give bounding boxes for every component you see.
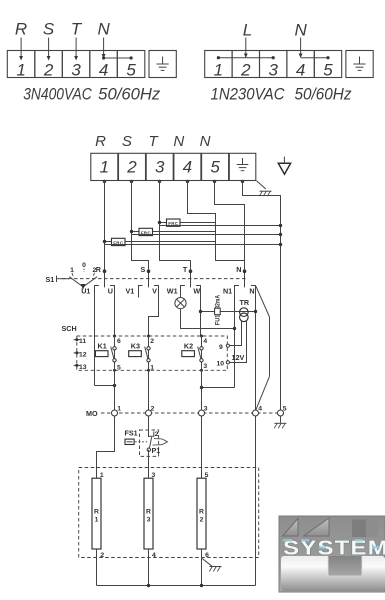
filter FRC (T phase) (167, 219, 181, 226)
wire earth pigtail at terminal 6 (202, 559, 212, 567)
transformer TR (240, 308, 249, 322)
dashed link sensor to contact (135, 441, 147, 443)
svg-text:S1: S1 (46, 275, 55, 284)
terminal 2 (232, 51, 259, 80)
svg-text:S: S (141, 265, 146, 274)
SCH edge terminals (113, 335, 203, 372)
manual actuator flag (153, 439, 168, 446)
relay contact K1 (95, 342, 116, 362)
contact U1 brackets (95, 286, 117, 388)
resistor R3 (144, 478, 153, 549)
logo square (352, 520, 378, 538)
terminal 2 (119, 153, 146, 180)
svg-text:3: 3 (147, 517, 151, 524)
mechanical linkage dashed line (62, 278, 247, 280)
svg-text:V1: V1 (126, 286, 135, 295)
svg-text:P1: P1 (152, 446, 161, 455)
node MO5 (278, 405, 287, 416)
switch position label 0 (82, 262, 86, 272)
wire N terminal5 riser (215, 180, 245, 287)
svg-text:10: 10 (216, 361, 224, 368)
wire bottom return bus (97, 584, 256, 587)
SCH board dashed box (77, 336, 228, 370)
node MO1 (112, 405, 122, 416)
ground terminal (229, 153, 256, 180)
svg-text:R: R (146, 509, 151, 516)
svg-text:V: V (152, 286, 157, 295)
SECTION: top-right supply terminal block 1N230VAC (205, 21, 373, 104)
svg-text:12V: 12V (232, 353, 245, 362)
svg-text:2: 2 (100, 552, 104, 559)
wire PE riser (243, 180, 281, 410)
wire bus terminals 1-3 (217, 56, 275, 59)
lamp W1 (175, 298, 186, 309)
svg-text:1: 1 (16, 60, 25, 79)
contact P1 fixed corner and terminal 2 (149, 431, 159, 438)
wire TR secondary to terminal 9 (230, 321, 242, 346)
logo triangle 1 (283, 519, 299, 537)
svg-text:6: 6 (117, 338, 121, 345)
terminal 9 (219, 344, 229, 351)
svg-text:U: U (108, 286, 113, 295)
svg-text:2: 2 (126, 158, 137, 177)
wire TR secondary to terminal 10 (230, 321, 247, 363)
svg-text:FS1: FS1 (125, 429, 138, 438)
resistor R1 (92, 478, 101, 549)
wire arrow R to terminal 1 (19, 38, 23, 61)
wire MO3 to heater R2 (201, 416, 203, 478)
svg-text:11: 11 (79, 338, 86, 345)
terminal 13 (74, 364, 87, 371)
terminal 12 (74, 351, 87, 358)
contact W1 brackets (181, 286, 201, 337)
svg-text:5: 5 (283, 405, 287, 412)
wire T riser (160, 180, 191, 287)
wire arrow T to terminal 3 (74, 38, 78, 61)
switch position label 1 (70, 267, 74, 276)
svg-text:K1: K1 (98, 342, 107, 351)
wire arrow N to terminal 4 (102, 38, 106, 59)
svg-text:R: R (96, 265, 102, 274)
wire contact to heater R3 (148, 450, 150, 479)
svg-text:5: 5 (126, 60, 136, 79)
svg-text:FU1: FU1 (214, 315, 221, 326)
wire R3 bottom to bus (148, 549, 150, 586)
svg-text:N: N (97, 20, 110, 39)
logo bottom band (281, 556, 385, 591)
svg-text:K2: K2 (184, 342, 193, 351)
MO dashed bus (101, 412, 284, 414)
earth stub below node 5 (280, 416, 282, 423)
SECTION: top-left supply terminal block 3N400VAC (7, 20, 176, 104)
terminal 3 (62, 51, 90, 80)
heater unit dashed box (79, 468, 259, 558)
svg-text:N: N (236, 265, 241, 274)
wire filter tap T upper (158, 221, 216, 224)
node T (183, 265, 192, 274)
wire N diagonal branch (256, 286, 270, 410)
wire link terminal 4 to terminal 5 (102, 56, 133, 59)
svg-text:1: 1 (150, 364, 154, 371)
terminal 5 (202, 153, 229, 180)
contact V1 brackets (139, 286, 159, 337)
svg-text:5: 5 (323, 60, 333, 79)
wire lamp return (181, 309, 237, 330)
svg-text:L: L (243, 21, 252, 40)
svg-text:R: R (199, 509, 204, 516)
terminal 3 (146, 153, 173, 180)
wire R1 bottom to bus (96, 549, 98, 586)
svg-text:S: S (122, 133, 132, 150)
terminal 4 (90, 51, 118, 80)
svg-text:2: 2 (155, 431, 159, 438)
svg-text:50/60Hz: 50/60Hz (98, 86, 161, 104)
svg-text:2: 2 (151, 405, 155, 412)
svg-text:N: N (173, 133, 184, 150)
svg-text:1: 1 (95, 517, 99, 524)
svg-text:3: 3 (203, 363, 207, 370)
svg-text:3: 3 (268, 60, 278, 79)
terminal 4 (287, 51, 314, 80)
wire filter S lower to PE (132, 233, 283, 236)
svg-text:3: 3 (204, 405, 208, 412)
terminal 4 (174, 153, 201, 180)
switch S1 shaft (57, 276, 70, 283)
svg-text:4: 4 (258, 405, 262, 412)
logo tab highlight edge (327, 556, 329, 576)
svg-text:4: 4 (296, 60, 305, 79)
svg-text:5: 5 (210, 158, 220, 177)
contact N1 brackets (200, 286, 256, 411)
svg-text:2: 2 (150, 338, 154, 345)
wire K2 riser (201, 336, 203, 410)
wire R riser (104, 180, 106, 287)
svg-text:1: 1 (214, 60, 223, 79)
svg-text:9: 9 (219, 344, 223, 351)
node MO3 (199, 405, 208, 416)
wire ground pigtail (257, 181, 266, 189)
SECTION: main terminal block (91, 133, 291, 410)
logo base plate (279, 516, 385, 592)
svg-text:1: 1 (100, 158, 109, 177)
wire filter T lower to PE (160, 224, 283, 227)
svg-text:3: 3 (155, 158, 165, 177)
svg-text:T: T (71, 20, 83, 39)
wire N terminal4 riser (188, 180, 245, 260)
switch S1 selector V (69, 277, 97, 290)
svg-text:0: 0 (82, 262, 86, 269)
wire bus terminals 4-5 (301, 56, 330, 59)
terminal 1 (205, 51, 232, 80)
svg-text:4: 4 (152, 552, 156, 559)
chassis earth symbol at block (259, 191, 271, 196)
svg-text:1N230VAC: 1N230VAC (211, 86, 285, 104)
logo center tab (328, 556, 362, 576)
wire MO2 to safety contact (148, 416, 150, 437)
node MO2 (146, 405, 155, 416)
svg-text:K3: K3 (131, 342, 140, 351)
contact U1 labels (81, 286, 113, 295)
terminal 11 (74, 338, 87, 345)
svg-text:2: 2 (240, 60, 251, 79)
resistor R2 (197, 478, 206, 549)
svg-text:N: N (249, 286, 254, 295)
svg-text:N: N (200, 133, 211, 150)
svg-text:32mA: 32mA (214, 295, 221, 309)
svg-text:5: 5 (117, 364, 121, 371)
wire filter R lower to PE (105, 243, 283, 246)
relay contact K3 (129, 342, 151, 362)
svg-text:S: S (43, 20, 55, 39)
svg-text:4: 4 (99, 60, 108, 79)
svg-text:R: R (15, 20, 27, 39)
SECTION: selector switch S1 and contacts (46, 262, 270, 410)
svg-text:3: 3 (71, 60, 81, 79)
wire filter tap S upper (130, 230, 216, 233)
svg-text:W1: W1 (167, 286, 178, 295)
node S (141, 265, 151, 274)
terminal 5 (314, 51, 341, 80)
contact V1 labels (126, 286, 158, 295)
wire R2 bottom to bus (201, 549, 203, 586)
ground terminal (149, 51, 176, 78)
switch position label 2 (93, 267, 97, 276)
node MO4 (253, 405, 263, 416)
wire MO1 to heater R1 (97, 416, 115, 478)
fuse FU1 (215, 308, 221, 315)
junction dots under terminals (103, 180, 244, 183)
svg-text:13: 13 (79, 364, 87, 371)
contact N1 labels (223, 286, 255, 295)
wire arrow N to bus (299, 38, 303, 59)
SECTION: MO line (86, 405, 287, 428)
chassis earth symbol at heater (209, 567, 221, 572)
terminal 10 (216, 361, 229, 368)
SECTION: SCH board (62, 324, 245, 410)
svg-text:2: 2 (43, 60, 54, 79)
wire K3 riser (148, 336, 150, 410)
svg-text:R: R (94, 509, 99, 516)
terminal 1 (7, 51, 35, 80)
terminal 1 (91, 153, 118, 180)
wire S riser (132, 180, 149, 287)
filter FRC (S phase) (139, 228, 153, 235)
svg-text:N1: N1 (223, 286, 232, 295)
svg-text:MO: MO (86, 409, 98, 418)
node R (96, 265, 107, 274)
svg-text:4: 4 (203, 338, 207, 345)
svg-text:R: R (95, 133, 106, 150)
chassis earth symbol below node 5 (274, 423, 286, 428)
SECTION: FS1 P1 (97, 416, 256, 586)
wire filter tap R upper (103, 240, 216, 243)
relay contact K2 (182, 342, 203, 362)
svg-text:T: T (183, 265, 188, 274)
wire MO4 riser down (255, 416, 257, 586)
terminal 5 (117, 51, 145, 80)
svg-text:U1: U1 (81, 286, 90, 295)
SECTION: filter rows (103, 219, 282, 246)
filter FRC (R phase) (112, 238, 126, 245)
wire arrow S to terminal 2 (47, 38, 51, 61)
terminal 2 (35, 51, 63, 80)
terminal 3 (260, 51, 287, 80)
SECTION: heaters (79, 468, 259, 588)
node N (236, 265, 246, 274)
contact W1 labels (167, 286, 201, 295)
svg-text:4: 4 (183, 158, 192, 177)
SECTION: lamp fuse transformer (175, 295, 257, 362)
svg-text:N: N (294, 21, 307, 40)
svg-text:6: 6 (205, 552, 209, 559)
protective earth triangle symbol (278, 157, 290, 175)
svg-text:W: W (193, 286, 200, 295)
svg-text:12: 12 (79, 351, 87, 358)
contact P1 blade (147, 437, 160, 455)
safety thermostat dashed box (140, 430, 159, 456)
svg-text:3N400VAC: 3N400VAC (23, 86, 92, 104)
FS1 sensor element (125, 439, 134, 444)
svg-text:SCH: SCH (62, 324, 77, 333)
svg-text:50/60Hz: 50/60Hz (295, 86, 353, 104)
svg-text:2: 2 (200, 517, 204, 524)
logo SYSTEM cyan accents (283, 539, 380, 549)
logo triangle 2 (304, 518, 330, 536)
svg-text:TR: TR (240, 298, 250, 307)
wire fuse line (199, 310, 257, 313)
svg-text:1: 1 (117, 405, 121, 412)
wire arrow L to bus (244, 38, 248, 59)
ground terminal (346, 51, 373, 78)
wire K1 riser (114, 336, 116, 410)
